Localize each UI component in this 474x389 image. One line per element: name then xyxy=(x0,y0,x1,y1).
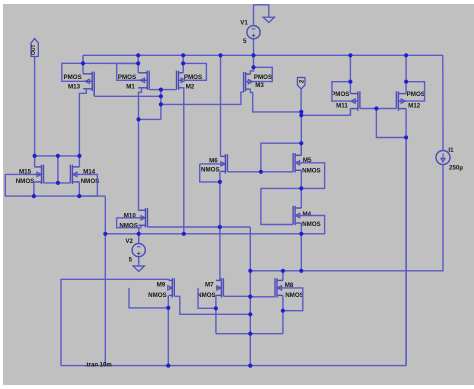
wire V1 to rail xyxy=(253,39,255,56)
wire bus y233.8 xyxy=(105,233,301,235)
wire M11 source xyxy=(349,109,351,116)
wire M9 gate xyxy=(174,296,250,314)
wire M7 source down xyxy=(215,295,217,333)
svg-text:M10: M10 xyxy=(124,213,137,220)
wire M1 gate to hub xyxy=(149,89,161,91)
wire diode link y156 xyxy=(35,155,80,157)
wire M2 source down xyxy=(179,88,184,234)
svg-text:M2: M2 xyxy=(186,83,195,90)
transistor M10 NMOS xyxy=(119,208,147,229)
wire M3 drain to rail xyxy=(250,55,253,74)
wire M14 source down xyxy=(78,182,80,196)
wire M12 column lower xyxy=(405,138,407,366)
wire V2 bottom xyxy=(138,257,140,266)
wire gate M6-M5 xyxy=(227,171,293,173)
wire M13 drain to rail xyxy=(82,55,84,74)
svg-text:V2: V2 xyxy=(125,238,133,245)
wire M7 drain stub xyxy=(220,279,222,281)
wire M4 bulk loop xyxy=(295,216,325,234)
wire node2 to M11 source xyxy=(301,109,350,116)
svg-text:.tran 10m: .tran 10m xyxy=(85,363,112,369)
wire gate bus upper xyxy=(83,62,138,64)
svg-text:NMOS: NMOS xyxy=(201,166,220,173)
transistor M13 PMOS xyxy=(63,72,94,97)
svg-text:PMOS: PMOS xyxy=(63,74,81,81)
voltage source V1 xyxy=(240,5,269,45)
wire M6 drain to rail xyxy=(220,55,222,156)
wire M11 drain to rail xyxy=(349,55,351,93)
wire rail to I1 xyxy=(442,55,444,150)
wire M14 bulk loop xyxy=(74,174,97,196)
wire M6 source to M7 drain xyxy=(219,182,221,281)
transistor M12 PMOS xyxy=(396,91,425,111)
wire M15 bulk loop xyxy=(5,174,34,196)
wire M10 bulk line xyxy=(117,217,140,219)
svg-text:5: 5 xyxy=(129,257,133,264)
svg-text:V1: V1 xyxy=(240,20,248,27)
wire hub to M1 source node xyxy=(139,118,161,120)
svg-text:M7: M7 xyxy=(205,282,214,289)
svg-text:M11: M11 xyxy=(336,102,348,109)
wire OUT down to M15 drain xyxy=(34,57,36,167)
net flag 2 xyxy=(297,78,305,90)
voltage source V2 xyxy=(125,238,145,263)
transistor M15 NMOS xyxy=(16,165,44,186)
wire bottom rail xyxy=(61,365,406,367)
wire M2 gate to hub xyxy=(161,89,177,91)
wire M2 drain to rail xyxy=(182,55,184,73)
transistor M8 NMOS xyxy=(275,278,304,299)
transistor M5 NMOS xyxy=(293,153,321,174)
wire M8 drain up xyxy=(282,271,284,281)
svg-text:PMOS: PMOS xyxy=(331,91,349,98)
transistor M4 NMOS xyxy=(293,206,321,228)
wire VDD top rail xyxy=(83,54,443,56)
transistor M9 NMOS xyxy=(148,278,174,299)
svg-text:M4: M4 xyxy=(302,211,311,218)
wire M1 drain to rail xyxy=(137,55,139,73)
wire M2 bulk loop xyxy=(183,63,206,80)
current source I1 xyxy=(436,147,463,172)
wire M6 bulk loop xyxy=(200,164,220,182)
wire hub to M3 gate xyxy=(161,92,244,104)
wire M12 source down to ground rail xyxy=(405,109,407,366)
transistor M2 PMOS xyxy=(177,71,203,91)
wire M5 bulk loop xyxy=(295,163,325,189)
wire M4 source node down xyxy=(300,234,302,271)
svg-text:NMOS: NMOS xyxy=(16,178,35,185)
ground at V2 xyxy=(133,266,144,271)
svg-text:250µ: 250µ xyxy=(449,165,463,172)
junction dots xyxy=(136,53,140,57)
wire M11-M12 gate link xyxy=(360,108,397,110)
wire M15 bulk line xyxy=(5,173,36,175)
wire M10 bulk loop xyxy=(117,218,139,228)
wire M5 source down xyxy=(300,170,302,188)
svg-text:PMOS: PMOS xyxy=(407,91,425,98)
wire M9 bulk loop xyxy=(129,288,168,308)
wire M13 source lead xyxy=(79,89,86,167)
wire M8 bulk loop xyxy=(279,288,303,311)
wire node2 column xyxy=(300,112,302,155)
wire I1 down and left xyxy=(250,165,443,271)
wire M7 gate xyxy=(223,295,250,297)
wire M6 bulk line xyxy=(200,163,222,165)
wire M4 source down xyxy=(300,223,302,234)
svg-text:NMOS: NMOS xyxy=(302,168,321,175)
wire gate link riser xyxy=(376,109,406,138)
wire gate riser x58 xyxy=(57,156,59,183)
svg-text:2: 2 xyxy=(299,79,306,83)
transistor M3 PMOS xyxy=(244,72,273,92)
wire M3 bulk loop xyxy=(248,67,272,81)
transistor M14 NMOS xyxy=(70,165,99,186)
wire C2 detour to M4 gate xyxy=(261,188,301,224)
wire mid ground y333.7 xyxy=(216,333,283,335)
svg-text:M13: M13 xyxy=(68,83,81,90)
wire M13 gate-bulk loop xyxy=(62,63,85,81)
svg-text:M9: M9 xyxy=(157,282,166,289)
svg-text:M1: M1 xyxy=(126,83,135,90)
wire M5 drain xyxy=(300,143,302,155)
wire M8 source down xyxy=(282,295,284,333)
transistor M1 PMOS xyxy=(118,71,149,91)
svg-text:M3: M3 xyxy=(255,82,264,89)
wire M1 bulk loop xyxy=(117,63,140,80)
transistor M6 NMOS xyxy=(201,154,227,173)
svg-text:NMOS: NMOS xyxy=(285,292,304,299)
wire source bus y196 xyxy=(34,195,105,197)
transistor M11 PMOS xyxy=(331,91,360,111)
wire M6 source down xyxy=(219,171,221,182)
svg-text:NMOS: NMOS xyxy=(81,178,100,185)
svg-text:PMOS: PMOS xyxy=(254,74,272,81)
wire M15-M14 gate link xyxy=(44,182,71,184)
ground at V1 xyxy=(263,17,274,22)
wire M8 gate xyxy=(250,296,275,298)
wire M13 gate to hub xyxy=(94,95,161,97)
svg-text:M12: M12 xyxy=(408,102,421,109)
svg-text:NMOS: NMOS xyxy=(302,221,321,228)
wire M15 source down xyxy=(33,182,35,196)
wire flag 2 stem xyxy=(300,89,302,112)
svg-text:NMOS: NMOS xyxy=(148,292,167,299)
wire M12 drain to rail xyxy=(405,55,407,93)
wire M10 source down xyxy=(139,225,141,234)
wire M9 drain feed xyxy=(61,279,169,365)
wire M9 source down xyxy=(167,295,169,365)
wire y196 down column xyxy=(104,196,106,366)
wire M12 bulk loop xyxy=(401,82,425,101)
wire M11 bulk loop xyxy=(332,82,352,101)
wire C1 detour M5 drain to gate xyxy=(261,143,301,172)
wire hub column x250 xyxy=(249,227,251,366)
transistor M7 NMOS xyxy=(197,278,223,299)
wire V2 top xyxy=(138,234,140,244)
svg-text:OUT: OUT xyxy=(31,44,37,55)
wire M7 bulk loop xyxy=(198,288,216,308)
svg-text:5: 5 xyxy=(243,38,247,45)
svg-text:NMOS: NMOS xyxy=(197,292,216,299)
svg-text:I1: I1 xyxy=(448,147,454,154)
wire M1 source lead xyxy=(139,88,142,211)
wire M10 gate line xyxy=(148,226,251,228)
wire M5 source node to M4 drain xyxy=(300,188,302,208)
wire M3 source down xyxy=(250,89,301,112)
net flag OUT xyxy=(31,39,38,57)
wire gate hub vertical xyxy=(160,90,162,120)
